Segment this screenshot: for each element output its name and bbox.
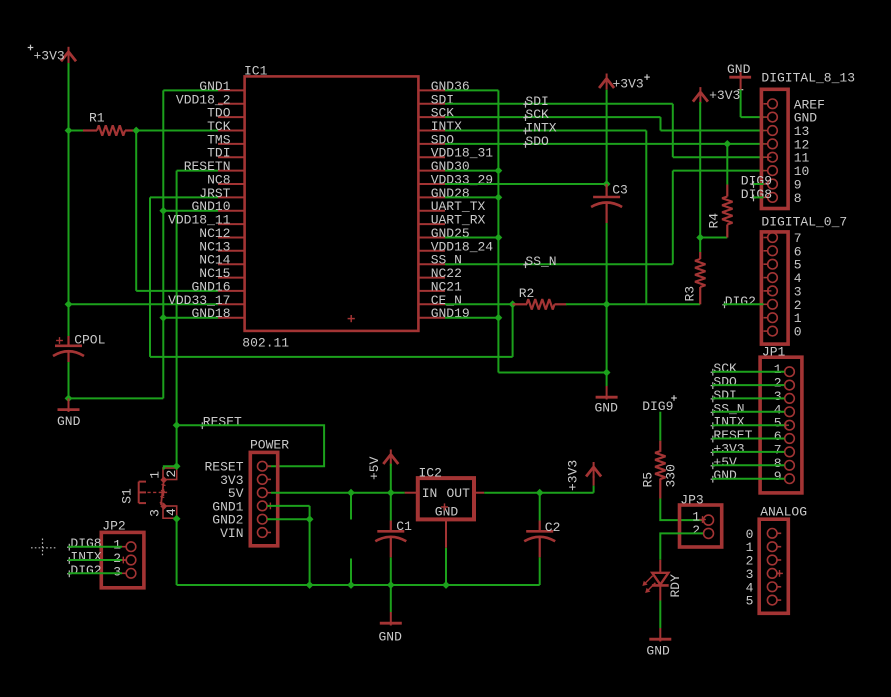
svg-text:3: 3: [148, 509, 163, 517]
DIGITAL_8_13 pin 9: [764, 178, 802, 193]
node junction R2/R3 row: [603, 300, 611, 308]
JP3 pin 1: [692, 510, 713, 526]
wire GND rail x498: [497, 90, 499, 372]
svg-text:DIGITAL_0_7: DIGITAL_0_7: [761, 215, 847, 230]
label net SDO: [523, 134, 549, 149]
JP3 pin 2: [692, 523, 713, 539]
svg-text:C2: C2: [545, 520, 561, 535]
JP2 pin 1: [113, 538, 136, 553]
IC1 pin JRST: [199, 186, 244, 201]
IC1 pin INTX: [418, 119, 462, 134]
IC1 pin NC22: [418, 266, 462, 281]
POWER pin RESET: [204, 460, 271, 475]
wire RESETN down to RESET node: [176, 171, 178, 426]
wire POWER GND1: [267, 505, 310, 507]
node junction R1/TCK: [132, 127, 140, 135]
svg-text:0: 0: [794, 325, 802, 340]
node junction +3V3/R1: [65, 127, 73, 135]
ground GND (below CPOL): [57, 398, 81, 429]
label net INTX (JP2): [67, 550, 102, 565]
label net GND (JP1): [711, 468, 737, 483]
wire SDO to JP1 pin 2: [712, 384, 784, 386]
IC1 pin TDI: [207, 146, 245, 161]
wire SDI down: [672, 104, 674, 157]
label net INTX: [523, 121, 557, 136]
connector POWER: [250, 438, 289, 546]
label net DIG9 (to R5): [642, 395, 677, 414]
wire INTX to JP2: [68, 559, 122, 561]
IC1 pin GND16: [191, 279, 244, 294]
IC1 pin SCK: [418, 106, 454, 121]
IC1 pin GND28: [418, 186, 469, 201]
wire bottom GND rail: [177, 584, 540, 586]
wire +5V to JP1 pin 8: [712, 464, 784, 466]
svg-text:DIG8: DIG8: [741, 187, 772, 202]
wire JP3 pin2 to LED: [660, 533, 703, 559]
wire DIG9 stub: [754, 183, 764, 185]
wire POWER 5V: [271, 492, 391, 494]
DIGITAL_8_13 pin 11: [764, 151, 810, 166]
wire SS_N to JP1 pin 4: [712, 411, 784, 413]
node junction CE_N: [509, 300, 517, 308]
wire SCK to pin 13: [661, 130, 764, 132]
ground GND (bottom center): [379, 585, 403, 645]
IC1 pin SS_N: [418, 253, 462, 268]
IC1 pin GND18: [191, 306, 244, 321]
POWER pin GND1: [212, 499, 271, 514]
label net SDI (JP1): [711, 388, 737, 403]
wire JRST to CE_N link: [150, 356, 513, 358]
origin cross (sheet marker): [31, 539, 56, 558]
svg-text:GND: GND: [646, 644, 670, 659]
wire to GND16 pin: [136, 290, 218, 292]
JP1 pin 5: [774, 416, 795, 431]
svg-text:330: 330: [664, 464, 679, 487]
power +3V3 (at IC2 OUT): [566, 460, 602, 491]
IC1 pin VDD33_29: [418, 173, 493, 188]
JP1 pin 1: [774, 362, 795, 377]
node junction GND10 tap: [159, 207, 167, 215]
IC1 pin VDD18_24: [418, 239, 493, 254]
JP2 pin 2: [113, 551, 136, 566]
node junction rail IC2 GND: [442, 581, 450, 589]
node junction GND center: [603, 369, 611, 377]
ANALOG pin 4: [746, 580, 782, 595]
IC1 pin NC21: [418, 279, 462, 294]
IC1 pin GND36: [418, 79, 469, 94]
wire 5V to IC2 IN: [391, 492, 405, 494]
svg-text:GND: GND: [379, 630, 403, 645]
svg-text:DIG9: DIG9: [642, 399, 673, 414]
svg-text:GND: GND: [595, 401, 619, 416]
node junction rail stub: [347, 581, 355, 589]
svg-text:+3V3: +3V3: [566, 460, 581, 491]
node junction CPOL/GND18 return: [65, 395, 73, 403]
svg-text:3: 3: [113, 564, 121, 579]
node junction GND30: [495, 167, 503, 175]
JP1 pin 2: [774, 376, 795, 391]
wire CE_N to R2: [445, 303, 513, 305]
connector DIGITAL_0_7: [761, 215, 847, 344]
IC1 pin VDD18_11: [168, 213, 245, 228]
wire net SDI: [445, 103, 673, 105]
capacitor C1: [375, 493, 412, 558]
wire stub rail upper: [350, 559, 352, 586]
wire GND rail to center GND: [498, 372, 606, 374]
node junction +3V3/C3: [603, 180, 611, 188]
ANALOG pin 5: [746, 594, 782, 609]
wire S1 to rail: [176, 519, 178, 585]
label net DIG2 (pin 2): [722, 294, 756, 309]
svg-text:5: 5: [746, 594, 754, 609]
svg-text:CPOL: CPOL: [74, 333, 105, 348]
svg-text:R3: R3: [683, 286, 698, 302]
wire to GND18 pin: [163, 317, 218, 319]
DIGITAL_0_7 pin 7: [764, 231, 802, 246]
JP2 pin 3: [113, 564, 136, 579]
POWER pin 5V: [228, 486, 271, 501]
wire net SS_N: [445, 263, 673, 265]
svg-text:9: 9: [774, 469, 782, 484]
wire SDI to pin 11: [673, 156, 764, 158]
label net +5V (JP1): [711, 455, 737, 470]
wire stub 5V lower: [350, 493, 352, 520]
svg-text:SDO: SDO: [525, 134, 549, 149]
wire +3V3 rail down: [699, 102, 701, 252]
ground GND (center): [595, 373, 619, 416]
node junction GND25: [495, 234, 503, 242]
connector DIGITAL_8_13: [761, 71, 855, 209]
svg-text:C3: C3: [612, 183, 628, 198]
capacitor C3: [591, 183, 628, 224]
svg-text:DIG2: DIG2: [725, 294, 756, 309]
wire C2 to rail: [539, 557, 541, 585]
svg-text:GND: GND: [57, 414, 81, 429]
ground GND (bottom right): [646, 628, 671, 659]
node junction S1 bottom: [173, 515, 181, 523]
wire net SDO: [445, 143, 764, 145]
label net SCK (JP1): [711, 361, 737, 376]
svg-text:R4: R4: [707, 213, 722, 229]
svg-text:DIG2: DIG2: [70, 563, 101, 578]
IC1 pin VDD33_17: [168, 293, 245, 308]
svg-text:R1: R1: [89, 111, 105, 126]
node junction VDD33_17 tap: [65, 300, 73, 308]
wire JRST pin: [150, 196, 218, 198]
svg-text:+3V3: +3V3: [613, 77, 644, 92]
wire RESETN to S1: [176, 425, 178, 466]
label net SDO (JP1): [711, 375, 737, 390]
IC1 pin GND30: [418, 159, 469, 174]
label net SS_N: [523, 254, 556, 269]
S1 pin 4 contact: [160, 503, 179, 518]
wire JRST down: [149, 197, 151, 357]
wire DIG2 stub: [724, 303, 764, 305]
JP1 pin 9: [774, 469, 795, 484]
wire R5 to JP3 pin1: [660, 499, 703, 521]
switch S1: [120, 482, 168, 504]
wire R2 to junction: [566, 303, 607, 305]
IC1 pin GND25: [418, 226, 469, 241]
node junction rail C1: [387, 581, 395, 589]
wire DIG9 to R5: [659, 412, 661, 441]
DIGITAL_0_7 pin 4: [764, 271, 802, 286]
DIGITAL_0_7 pin 3: [764, 284, 802, 299]
wire SDI to JP1 pin 3: [712, 397, 784, 399]
node junction SDO/R4: [723, 140, 731, 148]
wire RESET loop: [177, 425, 325, 466]
wire INTX corner to R3: [646, 303, 700, 305]
svg-text:DIGITAL_8_13: DIGITAL_8_13: [761, 71, 855, 86]
node junction 5V/C1: [387, 489, 395, 497]
wire DIG2 to JP2: [68, 572, 122, 574]
svg-text:R5: R5: [641, 472, 656, 488]
resistor R3: [683, 252, 706, 304]
wire SS_N to pin 10: [673, 170, 764, 172]
wire net SCK: [445, 116, 661, 118]
op-amp IC1 (802.11 module box): [242, 64, 418, 351]
wire IC2 GND to rail: [445, 548, 447, 585]
wire GND18 return: [69, 397, 164, 399]
svg-text:GND18: GND18: [191, 306, 230, 321]
IC1 pin VDD18_31: [418, 146, 493, 161]
IC1 pin NC8: [207, 173, 245, 188]
power +3V3 (top right): [693, 87, 743, 103]
wire CPOL to GND: [68, 362, 70, 398]
wire GND1 down: [309, 506, 311, 585]
LED RDY: [643, 560, 683, 601]
IC1 pin TDO: [207, 106, 245, 121]
wire SCK down: [660, 117, 662, 130]
IC1 pin TCK: [207, 119, 245, 134]
IC1 pin VDD18_2: [176, 92, 245, 107]
wire C1 to rail: [390, 557, 392, 585]
IC1 pin UART_TX: [418, 199, 485, 214]
connector JP2: [101, 519, 144, 588]
wire GND to JP1 pin 9: [712, 478, 784, 480]
DIGITAL_8_13 pin 10: [764, 164, 810, 179]
svg-text:1: 1: [148, 471, 163, 479]
node junction rail GND1: [306, 581, 314, 589]
wire IC2 OUT: [484, 492, 593, 494]
IC1 pin UART_RX: [418, 213, 485, 228]
S1 pin 1 label: [148, 471, 163, 479]
wire DIG8 to JP2: [68, 546, 122, 548]
IC1 pin NC14: [199, 253, 244, 268]
S1 lever: [160, 480, 166, 505]
label net INTX (JP1): [711, 415, 745, 430]
wire SS_N up: [672, 171, 674, 265]
JP1 pin 7: [774, 442, 795, 457]
svg-text:2: 2: [164, 470, 179, 478]
wire CE_N link up: [512, 304, 514, 357]
wire R4 bottom link: [700, 237, 727, 239]
JP1 pin 3: [774, 389, 795, 404]
wire GND19 stub: [445, 317, 498, 319]
connector JP3: [680, 493, 722, 548]
DIGITAL_8_13 pin GND: [764, 111, 818, 126]
svg-text:RDY: RDY: [668, 574, 683, 598]
wire OUT up to +3V3: [593, 486, 595, 493]
DIGITAL_0_7 pin 2: [764, 298, 802, 313]
label net SDI: [523, 94, 549, 109]
wire GND25 stub: [445, 237, 498, 239]
IC1 pin NC15: [199, 266, 244, 281]
wire INTX to JP1 pin 5: [712, 424, 784, 426]
wire GND36 net: [445, 89, 498, 91]
wire S1 top link: [164, 466, 177, 469]
transistor IC2 (voltage regulator): [418, 466, 474, 520]
connector JP1: [760, 345, 802, 493]
wire to GND10 pin: [163, 210, 218, 212]
svg-text:GND19: GND19: [431, 306, 470, 321]
svg-text:S1: S1: [120, 488, 135, 504]
node junction 5V stub: [347, 489, 355, 497]
IC1 pin NC13: [199, 239, 244, 254]
resistor R2: [513, 286, 567, 310]
wire DIG8 stub: [754, 196, 764, 198]
svg-text:IC2: IC2: [419, 466, 442, 481]
JP1 pin 6: [774, 429, 795, 444]
svg-text:+3V3: +3V3: [34, 49, 65, 64]
capacitor CPOL: [53, 333, 105, 363]
label net SS_N (JP1): [711, 401, 745, 416]
wire RESETN pin: [177, 170, 218, 172]
DIGITAL_0_7 pin 5: [764, 258, 802, 273]
label net SCK: [523, 107, 549, 122]
IC1 pin GND19: [418, 306, 469, 321]
DIGITAL_8_13 pin AREF: [764, 97, 825, 112]
node junction GND28: [495, 194, 503, 202]
POWER pin GND2: [212, 513, 271, 528]
wire POWER GND2: [267, 518, 310, 520]
ANALOG pin 3: [746, 567, 782, 582]
node junction RESET: [173, 421, 181, 429]
IC1 pin CE_N: [418, 293, 462, 308]
IC1 pin GND1: [199, 79, 244, 94]
DIGITAL_0_7 pin 6: [764, 244, 802, 259]
wire junction to INTX corner: [607, 303, 647, 305]
power +5V: [367, 450, 398, 493]
svg-text:SS_N: SS_N: [525, 254, 556, 269]
POWER pin VIN: [220, 526, 271, 541]
svg-text:OUT: OUT: [447, 486, 471, 501]
node junction OUT/C2: [536, 489, 544, 497]
S1 pin 2 contact: [160, 468, 179, 483]
wire INTX down: [645, 131, 647, 305]
capacitor C2: [524, 493, 560, 558]
DIGITAL_0_7 pin 0: [764, 325, 802, 340]
power +3V3 (top middle): [599, 74, 650, 185]
svg-text:2: 2: [692, 523, 700, 538]
svg-text:RESET: RESET: [203, 415, 242, 430]
wire net INTX: [445, 130, 646, 132]
label net RESET (JP1): [711, 428, 753, 443]
wire RESET to JP1 pin 6: [712, 438, 784, 440]
wire GND rail x163: [162, 90, 164, 398]
svg-text:C1: C1: [396, 519, 412, 534]
IC1 pin SDO: [418, 132, 454, 147]
S1 pin 3 label: [148, 509, 163, 517]
IC1 pin SDI: [418, 92, 454, 107]
node junction R4 bottom: [696, 234, 704, 242]
wire +3V3 rail down to CPOL: [68, 131, 70, 337]
node junction GND19: [495, 314, 503, 322]
JP1 pin 4: [774, 402, 795, 417]
svg-text:R2: R2: [519, 286, 535, 301]
resistor R4: [707, 144, 733, 238]
IC1 pin TMS: [207, 132, 245, 147]
svg-text:GND: GND: [713, 468, 737, 483]
POWER pin 3V3: [220, 473, 271, 488]
wire C3 to GND node: [606, 223, 608, 373]
svg-text:VIN: VIN: [220, 526, 243, 541]
wire R1 to TCK pin: [136, 130, 218, 132]
svg-text:4: 4: [164, 508, 179, 516]
label net DIG9 (pin 9): [741, 174, 772, 189]
svg-text:+3V3: +3V3: [709, 88, 740, 103]
ground GND (top right): [727, 62, 764, 117]
IC1 pin NC12: [199, 226, 244, 241]
IC2 pin GND: [445, 519, 447, 547]
DIGITAL_8_13 pin 13: [764, 124, 810, 139]
svg-text:+5V: +5V: [367, 456, 382, 480]
svg-text:IN: IN: [422, 486, 438, 501]
wire +3V3 to R1/CPOL rail: [68, 63, 70, 131]
label net DIG8 (pin 8): [741, 187, 772, 202]
svg-text:IC1: IC1: [244, 64, 268, 79]
wire LED to GND: [659, 601, 661, 629]
svg-text:JP2: JP2: [102, 519, 125, 534]
wire SCK to JP1 pin 1: [712, 371, 784, 373]
IC1 pin RESETN: [184, 159, 245, 174]
power +3V3 (top left): [28, 45, 76, 64]
label net RESET: [200, 415, 242, 430]
svg-text:JP1: JP1: [762, 345, 786, 360]
wire GND28 stub: [445, 196, 498, 198]
label net DIG2 (JP2): [67, 563, 102, 578]
resistor R1: [69, 111, 137, 136]
wire TCK net down to GND16: [135, 131, 137, 291]
DIGITAL_8_13 pin 8: [764, 191, 802, 206]
wire to VDD33_17 pin: [69, 303, 219, 305]
ANALOG pin 2: [746, 554, 782, 569]
DIGITAL_8_13 pin 12: [764, 137, 810, 152]
IC1 pin GND10: [191, 199, 244, 214]
svg-text:ANALOG: ANALOG: [760, 504, 807, 519]
IC2 pin IN: [405, 492, 418, 494]
DIGITAL_0_7 pin 1: [764, 311, 802, 326]
connector ANALOG: [759, 504, 807, 613]
svg-text:GND: GND: [727, 62, 751, 77]
resistor R5: [641, 441, 679, 499]
label net DIG8 (JP2): [67, 536, 102, 551]
svg-text:802.11: 802.11: [242, 336, 289, 351]
wire net VDD33_29 to +3V3: [445, 183, 607, 185]
svg-text:8: 8: [794, 191, 802, 206]
wire GND30 stub: [445, 170, 498, 172]
node junction GND18 tap: [159, 314, 167, 322]
ANALOG pin 0: [746, 527, 782, 542]
svg-text:JP3: JP3: [680, 493, 703, 508]
JP1 pin 8: [774, 456, 795, 471]
ANALOG pin 1: [746, 540, 782, 555]
node junction GND1/GND2: [306, 515, 314, 523]
svg-text:POWER: POWER: [250, 438, 289, 453]
wire GND1 pin to rail: [163, 89, 218, 91]
node junction S1 top: [173, 462, 181, 470]
IC2 pin OUT: [474, 492, 484, 494]
